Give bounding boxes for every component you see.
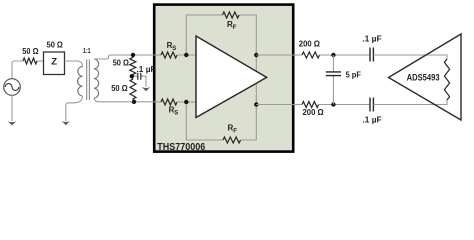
- junction output bottom: [254, 102, 258, 106]
- svg-text:200 Ω: 200 Ω: [303, 108, 325, 117]
- capacitor 5 pF: [332, 55, 334, 105]
- resistor RF bottom: [223, 137, 241, 143]
- ADC ADS5493: [389, 34, 462, 120]
- wire Z to transformer: [65, 61, 83, 67]
- junction secondary top: [131, 53, 135, 57]
- junction output top: [254, 53, 258, 57]
- wire resistor to Z: [37, 60, 44, 62]
- wire output bottom exit: [256, 104, 302, 106]
- svg-text:50 Ω: 50 Ω: [111, 84, 128, 93]
- transformer T1 secondary: [94, 59, 99, 98]
- ground (transformer): [62, 121, 70, 125]
- svg-text:.1 µF: .1 µF: [363, 116, 382, 125]
- svg-text:1:1: 1:1: [83, 46, 91, 55]
- wire cap bottom to ADC: [373, 100, 447, 105]
- svg-text:F: F: [233, 129, 237, 135]
- svg-text:F: F: [233, 25, 237, 31]
- resistor 50 ohm series: [23, 58, 37, 64]
- svg-text:S: S: [174, 111, 178, 117]
- wire primary bottom to ground: [66, 96, 83, 121]
- impedance Z box: [44, 52, 65, 75]
- wire source top: [12, 61, 23, 79]
- wire secondary top: [94, 55, 157, 59]
- resistor 200 ohm bottom: [302, 102, 319, 108]
- wire feedback top: [186, 15, 256, 55]
- junction 5pF top: [331, 53, 335, 57]
- wire source bottom: [11, 95, 13, 121]
- transformer T1 primary: [78, 67, 83, 97]
- resistor RS top: [161, 52, 177, 58]
- wire RS bottom to amp: [177, 101, 196, 103]
- wire feedback bottom: [186, 102, 256, 140]
- resistor 50 ohm lower: [130, 79, 136, 102]
- wire 200 top to cap: [320, 54, 371, 56]
- ground (source): [8, 121, 16, 125]
- junction centre tap: [130, 74, 134, 78]
- resistor 50 ohm upper: [130, 55, 136, 74]
- resistor RF top: [223, 12, 240, 18]
- wire input bottom: [157, 101, 161, 103]
- wire RS top to amp: [177, 54, 196, 56]
- junction secondary bottom: [132, 100, 136, 104]
- junction RS top / feedback: [184, 53, 188, 57]
- wire cap top to ADC: [373, 55, 447, 59]
- svg-text:50 Ω: 50 Ω: [113, 58, 130, 67]
- wire output top exit: [256, 54, 302, 56]
- resistor 200 ohm top: [302, 52, 320, 58]
- svg-text:Z: Z: [51, 57, 57, 68]
- source VG1: [4, 79, 21, 96]
- ground (centre tap): [142, 87, 150, 91]
- svg-text:50 Ω: 50 Ω: [22, 47, 39, 56]
- capacitor .1 uF bottom: [370, 98, 373, 112]
- junction RS bottom / feedback: [184, 100, 188, 104]
- resistor RS bottom: [161, 99, 177, 105]
- THS770006 block outline: [154, 5, 293, 152]
- wire secondary bottom: [94, 98, 157, 102]
- transformer T1 core: [87, 60, 90, 101]
- svg-text:50 Ω: 50 Ω: [47, 41, 64, 50]
- svg-text:5 pF: 5 pF: [346, 71, 361, 80]
- svg-text:200 Ω: 200 Ω: [299, 40, 321, 49]
- svg-text:THS770006: THS770006: [157, 142, 205, 153]
- svg-text:.1 µF: .1 µF: [362, 35, 381, 44]
- junction 5pF bottom: [331, 102, 335, 106]
- capacitor .1 uF (centre tap): [132, 76, 146, 86]
- svg-text:ADS5493: ADS5493: [407, 72, 440, 82]
- wire input top: [157, 54, 161, 56]
- op-amp THS770006: [196, 36, 267, 118]
- wire 200 bottom to cap: [319, 104, 371, 106]
- svg-text:S: S: [172, 46, 176, 52]
- svg-text:.1 µF: .1 µF: [137, 65, 156, 74]
- wire output vertical: [255, 55, 257, 105]
- resistor ADC input termination: [444, 59, 449, 100]
- capacitor .1 uF top: [370, 48, 373, 62]
